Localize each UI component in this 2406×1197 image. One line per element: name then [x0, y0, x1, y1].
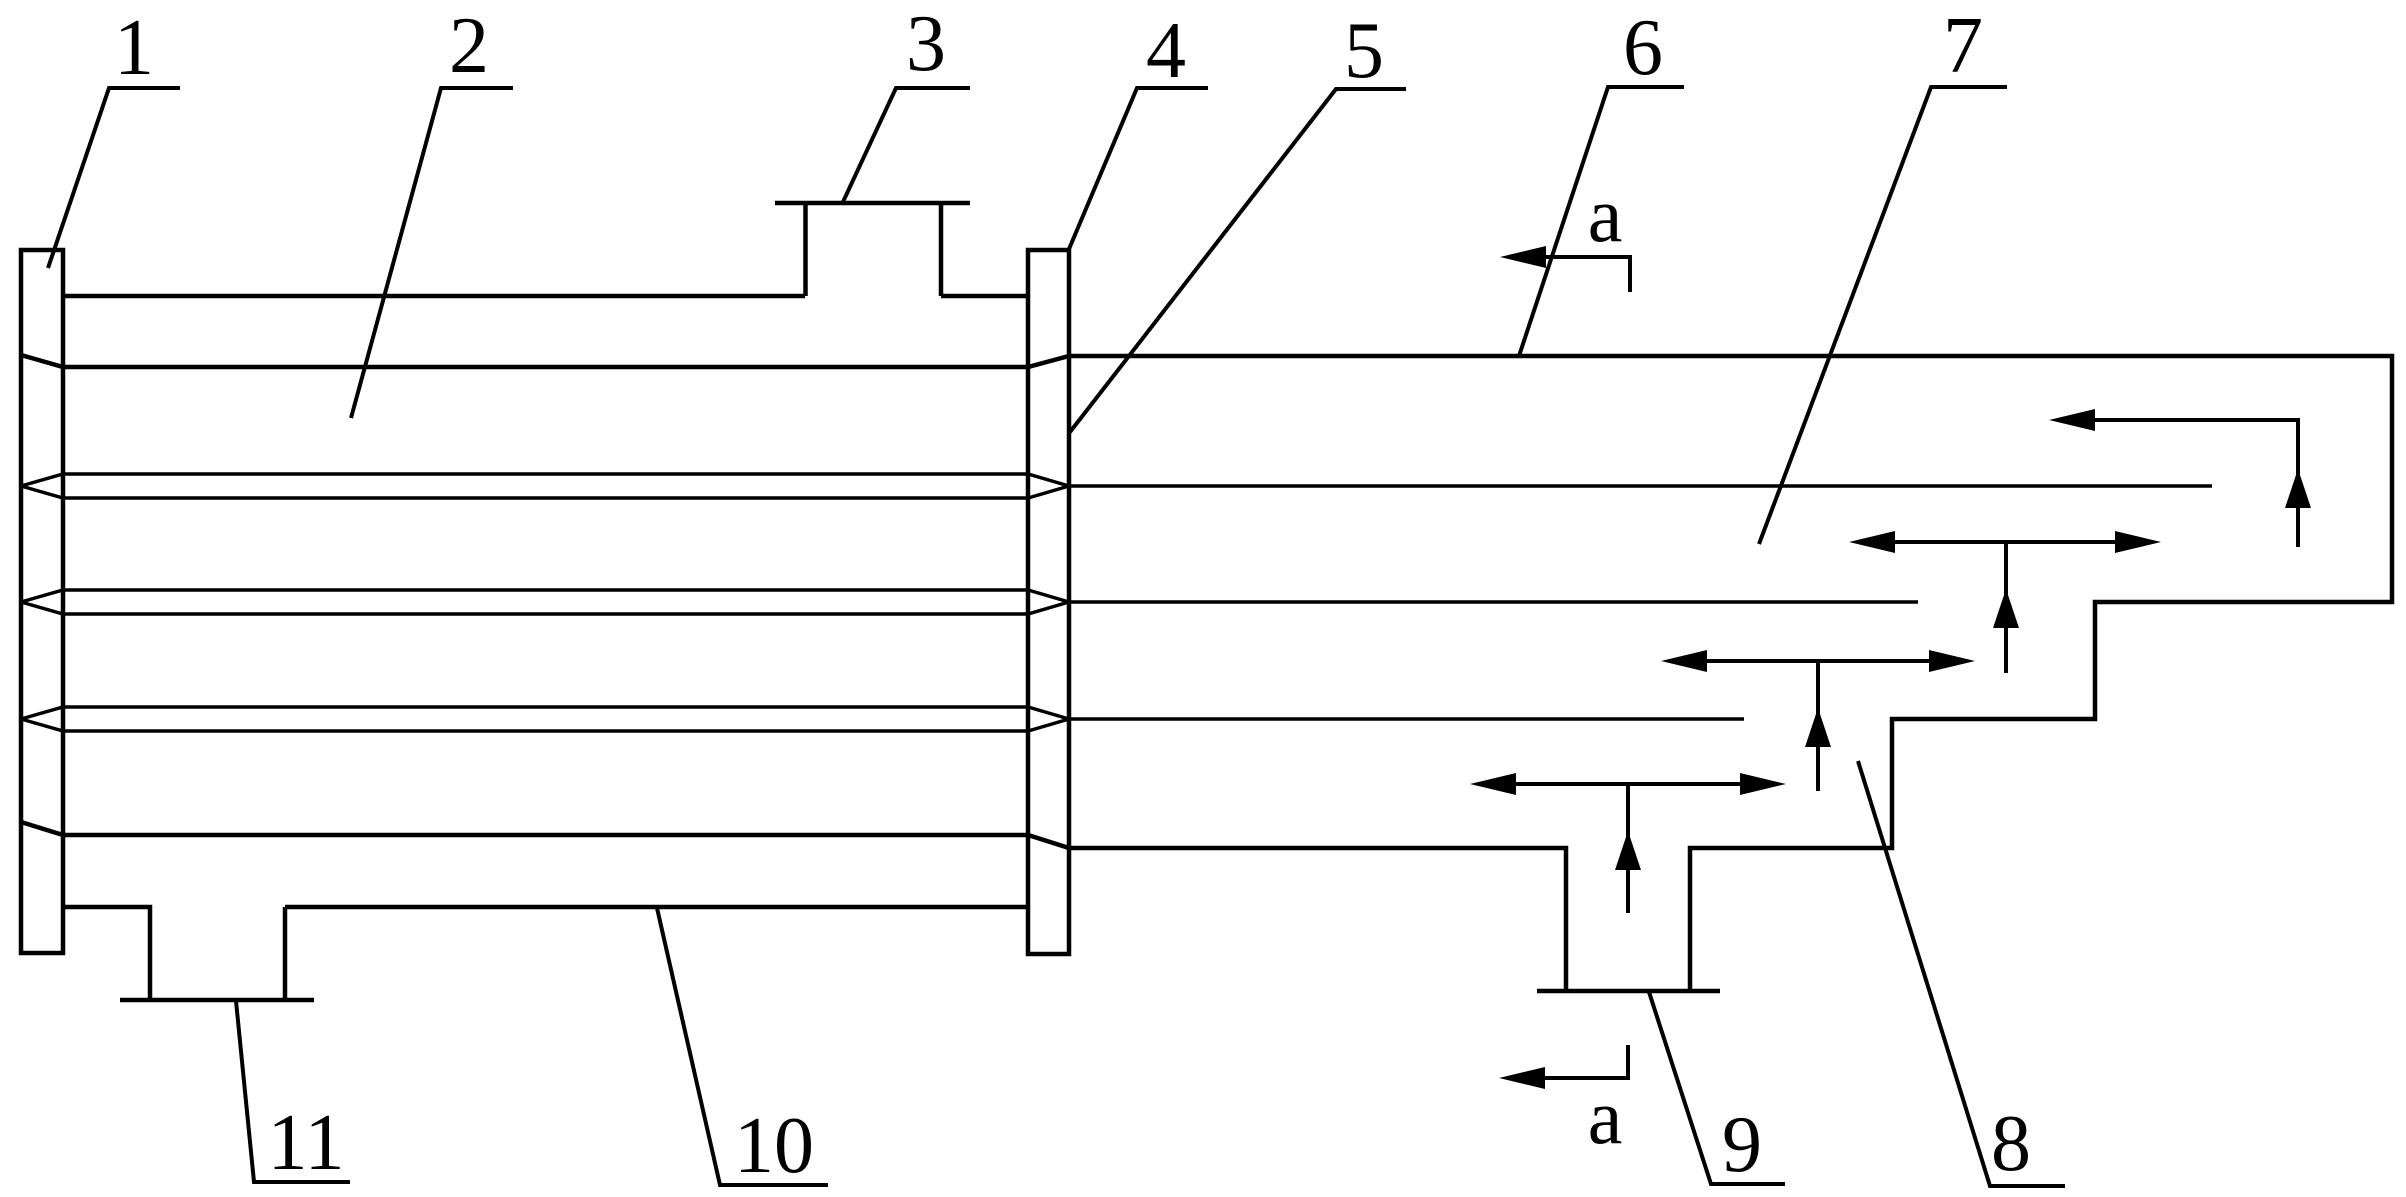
label 10 leader [657, 908, 828, 1185]
tube T1 upper wall [21, 474, 1069, 486]
label 5 leader [1070, 89, 1406, 432]
flow arrow T3 double-headed with stem [1515, 784, 1741, 913]
label 1 leader [48, 88, 180, 268]
label 2 leader [351, 88, 513, 418]
wire shell bottom left segment [63, 907, 150, 1000]
label 8 leader [1858, 761, 2065, 1186]
label 4 leader [1069, 88, 1208, 249]
label 3 leader [842, 88, 970, 204]
svg-text:a: a [1588, 1073, 1623, 1160]
flange 4 [1028, 250, 1069, 954]
tube T2 lower wall [21, 602, 1069, 614]
label 9 leader [1649, 992, 1785, 1184]
svg-text:2: 2 [449, 2, 489, 90]
svg-text:10: 10 [734, 1102, 814, 1190]
flow arrow T1 double-headed with stem [1894, 542, 2116, 673]
tube T3 upper wall [21, 707, 1069, 719]
tube T2 right line [1069, 600, 1918, 604]
svg-text:8: 8 [1991, 1100, 2031, 1188]
label 7 leader [1759, 87, 2007, 544]
tube sheet plate 1 [21, 250, 63, 953]
svg-text:4: 4 [1146, 7, 1186, 95]
label 6 leader [1519, 87, 1684, 356]
section marker a top [1545, 257, 1630, 292]
wire shell top right of nozzle [941, 294, 1028, 299]
svg-text:1: 1 [114, 4, 154, 92]
wire shell top left segment [63, 294, 805, 299]
tube T3 right line [1069, 717, 1744, 721]
nozzle 11 flange line [120, 998, 314, 1003]
tube T1 right line [1069, 484, 2212, 488]
svg-text:5: 5 [1344, 7, 1384, 95]
tube T2 upper wall [21, 590, 1069, 602]
nozzle 3 flange line [775, 201, 970, 206]
svg-text:3: 3 [906, 0, 946, 88]
nozzle 9 flange line [1537, 989, 1720, 994]
nozzle 3 right wall [939, 203, 944, 296]
wire shell bottom mid segment [285, 905, 1028, 910]
nozzle 11 right wall [283, 907, 288, 1000]
flow arrow top right corner [2094, 420, 2298, 547]
section marker a bottom [1544, 1045, 1628, 1078]
wire inner shell top and right shell top with staircase baffle 8 [21, 355, 2392, 991]
svg-text:9: 9 [1722, 1101, 1762, 1189]
tube T3 lower wall [21, 719, 1069, 731]
svg-text:11: 11 [267, 1099, 344, 1187]
svg-text:6: 6 [1623, 4, 1663, 92]
wire inner shell bottom and right shell bottom [21, 822, 1566, 991]
nozzle 3 left wall [803, 203, 808, 296]
svg-text:a: a [1588, 171, 1623, 258]
flow arrow T2 double-headed with stem [1706, 661, 1930, 791]
svg-text:7: 7 [1943, 2, 1983, 90]
label 11 leader [236, 1001, 350, 1182]
tube T1 lower wall [21, 486, 1069, 498]
